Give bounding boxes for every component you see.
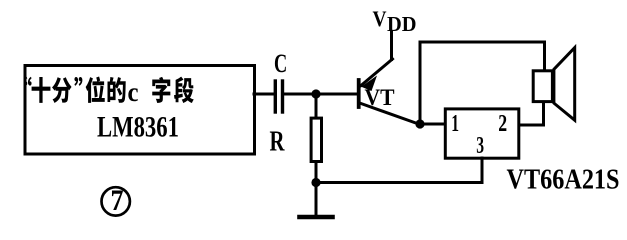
resistor R with leads <box>311 94 321 183</box>
svg-text:3: 3 <box>476 133 484 159</box>
node C junction dot <box>415 119 424 128</box>
wire node A to transistor base <box>316 93 357 96</box>
ground <box>300 215 333 220</box>
block U1 LM8361 counter-IC box <box>25 66 255 155</box>
transistor emitter arrow <box>361 76 377 92</box>
capacitor C <box>275 81 282 112</box>
wire capacitor to node A <box>284 93 316 96</box>
speaker LS frame <box>533 71 552 102</box>
svg-text:R: R <box>270 127 286 158</box>
svg-text:1: 1 <box>451 111 459 137</box>
figure number circle <box>102 187 130 215</box>
transistor VT (PNP) <box>359 59 420 125</box>
svg-text:C: C <box>274 48 287 78</box>
wire IC pin 2 to speaker <box>520 102 544 125</box>
wire node C to IC pin 1 <box>420 123 445 126</box>
svg-text:2: 2 <box>498 111 507 137</box>
IC U2 VT66A21S box <box>445 109 519 158</box>
svg-text:DD: DD <box>387 12 417 36</box>
wire box output to capacitor C <box>254 93 274 96</box>
wire node B to IC pin 3 <box>316 158 482 183</box>
svg-text:LM8361: LM8361 <box>97 111 179 144</box>
speaker LS cone <box>554 48 575 121</box>
label "十分"位的c 字段 <box>24 77 194 103</box>
node B junction dot <box>311 178 320 187</box>
svg-text:V: V <box>373 6 387 31</box>
node A junction dot <box>311 89 320 98</box>
svg-text:VT: VT <box>365 85 395 110</box>
power VDD stem <box>390 32 393 60</box>
wire node C up and across to speaker <box>420 42 545 124</box>
wire node B down to ground <box>315 183 318 215</box>
svg-text:VT66A21S: VT66A21S <box>507 165 620 196</box>
svg-text:c: c <box>128 77 139 107</box>
svg-text:7: 7 <box>111 184 124 217</box>
